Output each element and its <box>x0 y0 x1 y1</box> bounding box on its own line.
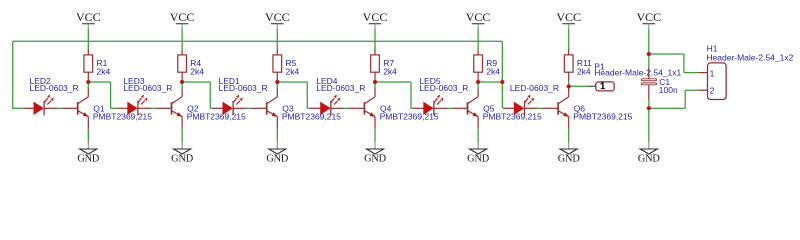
LED LED6 (LED-0603_R) <box>503 95 538 116</box>
junction node R4 / Q2 collector <box>180 80 184 84</box>
svg-text:LED-0603_R: LED-0603_R <box>30 83 79 93</box>
header P1 Header-Male-2.54_1x1 <box>588 82 615 91</box>
wire node to C1 <box>648 54 650 67</box>
junction VCC node / H1 pin1 branch <box>647 52 651 56</box>
svg-text:Header-Male-2.54_1x2: Header-Male-2.54_1x2 <box>706 52 793 62</box>
ground symbol (stage 1) <box>77 142 100 164</box>
svg-text:GND: GND <box>558 153 581 164</box>
power flag VCC (stage 1) <box>76 10 101 29</box>
wire into LED anode <box>411 107 413 109</box>
wire VCC to R7 <box>374 29 376 50</box>
wire to H1 pin 1 <box>684 72 699 74</box>
wire LED cathode to Q5 base <box>447 107 452 109</box>
svg-text:PMBT2369,215: PMBT2369,215 <box>282 112 341 122</box>
svg-text:LED-0603_R: LED-0603_R <box>419 83 468 93</box>
wire LED cathode to Q3 base <box>246 107 251 109</box>
svg-text:PMBT2369,215: PMBT2369,215 <box>483 112 542 122</box>
svg-text:LED-0603_R: LED-0603_R <box>219 83 268 93</box>
ground symbol (C1 / H1 column) <box>638 142 661 164</box>
junction node R9 / Q5 collector <box>476 80 480 84</box>
wire to LED2 anode <box>13 107 23 109</box>
svg-text:PMBT2369,215: PMBT2369,215 <box>93 112 152 122</box>
wire VCC to R9 <box>477 29 479 50</box>
svg-text:VCC: VCC <box>363 10 388 24</box>
svg-text:2k4: 2k4 <box>286 66 300 76</box>
transistor Q4 PMBT2369,215 (NPN) <box>349 88 375 128</box>
svg-text:2: 2 <box>710 85 715 95</box>
svg-text:2k4: 2k4 <box>577 66 591 76</box>
wire into LED anode <box>111 107 117 109</box>
ground symbol (stage 4) <box>364 142 387 164</box>
svg-text:VCC: VCC <box>170 10 195 24</box>
resistor R9 2k4 <box>474 49 483 81</box>
svg-text:GND: GND <box>266 153 289 164</box>
svg-text:2k4: 2k4 <box>383 66 397 76</box>
wire node to Q2 collector <box>181 82 183 89</box>
wire Q2 collector to next LED (vert) <box>209 82 211 108</box>
power flag VCC (stage 2) <box>170 10 195 29</box>
wire C1 to GND <box>648 100 650 142</box>
svg-text:PMBT2369,215: PMBT2369,215 <box>187 112 246 122</box>
wire to H1 pin 2 (vert) <box>684 90 686 108</box>
junction C1 / H1 pin2 branch <box>647 106 651 110</box>
LED LED4 (LED-0603_R) <box>309 95 344 116</box>
svg-text:LED-0603_R: LED-0603_R <box>316 83 365 93</box>
LED LED2 (LED-0603_R) <box>23 95 58 116</box>
transistor Q6 PMBT2369,215 (NPN) <box>543 88 569 128</box>
resistor R11 2k4 <box>564 49 573 81</box>
LED LED1 (LED-0603_R) <box>212 95 247 116</box>
wire VCC to R5 <box>276 29 278 50</box>
wire VCC to R4 <box>181 29 183 50</box>
transistor Q3 PMBT2369,215 (NPN) <box>251 88 277 128</box>
wire Q5 collector to rail junction <box>478 81 502 83</box>
svg-text:2k4: 2k4 <box>97 66 111 76</box>
wire Q1 collector to next LED (vert) <box>110 82 112 108</box>
wire node to Q1 collector <box>87 82 89 89</box>
resistor R1 2k4 <box>84 49 93 81</box>
svg-text:100n: 100n <box>659 85 678 95</box>
header H1 Header-Male-2.54_1x2 <box>699 63 727 100</box>
junction rail / Q5 collector node <box>500 80 504 84</box>
ground symbol (stage 3) <box>266 142 289 164</box>
wire Q4 emitter to GND <box>374 129 376 143</box>
svg-text:2k4: 2k4 <box>486 66 500 76</box>
svg-text:GND: GND <box>77 153 100 164</box>
power flag VCC (stage 4) <box>363 10 388 29</box>
resistor R5 2k4 <box>273 49 282 81</box>
ground symbol (stage 6) <box>558 142 581 164</box>
svg-text:VCC: VCC <box>636 10 661 24</box>
transistor Q1 PMBT2369,215 (NPN) <box>62 88 88 128</box>
resistor R7 2k4 <box>371 49 380 81</box>
wire VCC to node <box>648 29 650 54</box>
wire Q4 collector to next LED (vert) <box>410 82 412 108</box>
wire LED cathode to Q1 base <box>57 107 62 109</box>
junction node R11 / Q6 / P1 <box>567 84 571 88</box>
svg-text:PMBT2369,215: PMBT2369,215 <box>380 112 439 122</box>
wire Q3 collector to next LED (horiz) <box>277 81 307 83</box>
wire node to H1 pin 1 (horiz) <box>649 53 684 55</box>
power flag VCC (stage 3) <box>265 10 290 29</box>
ground symbol (stage 5) <box>467 142 490 164</box>
capacitor C1 100n <box>641 67 656 101</box>
svg-text:1: 1 <box>710 69 715 79</box>
power flag VCC (stage 5) <box>466 10 491 29</box>
svg-text:VCC: VCC <box>466 10 491 24</box>
wire VCC to R11 <box>568 29 570 50</box>
wire Q6 emitter to GND <box>568 129 570 143</box>
resistor R4 2k4 <box>178 49 187 81</box>
wire node to Q4 collector <box>374 82 376 89</box>
svg-text:GND: GND <box>467 153 490 164</box>
svg-text:PMBT2369,215: PMBT2369,215 <box>573 112 632 122</box>
svg-text:VCC: VCC <box>76 10 101 24</box>
svg-text:GND: GND <box>364 153 387 164</box>
svg-text:2k4: 2k4 <box>190 66 204 76</box>
ground symbol (stage 2) <box>171 142 194 164</box>
LED LED3 (LED-0603_R) <box>117 95 152 116</box>
wire to H1 pin 1 (vert) <box>683 54 685 73</box>
svg-text:VCC: VCC <box>556 10 581 24</box>
wire Q1 emitter to GND <box>87 129 89 143</box>
wire LED cathode to Q4 base <box>344 107 349 109</box>
LED LED5 (LED-0603_R) <box>413 95 448 116</box>
junction node R7 / Q4 collector <box>373 80 377 84</box>
wire to H1 pin 2 <box>685 89 698 91</box>
wire LED cathode to Q6 base <box>538 107 543 109</box>
power flag VCC (decoupling / H1 column) <box>636 10 661 29</box>
transistor Q5 PMBT2369,215 (NPN) <box>452 88 478 128</box>
wire Q3 emitter to GND <box>276 129 278 143</box>
wire LED cathode to Q2 base <box>151 107 156 109</box>
wire R11 to Q6 collector <box>568 80 570 90</box>
wire feedback rail (top) <box>13 40 503 42</box>
transistor Q2 PMBT2369,215 (NPN) <box>156 88 182 128</box>
svg-text:VCC: VCC <box>265 10 290 24</box>
wire node to Q5 collector <box>477 82 479 89</box>
svg-text:GND: GND <box>638 153 661 164</box>
wire node to Q3 collector <box>276 82 278 89</box>
junction node R5 / Q3 collector <box>275 80 279 84</box>
wire Q3 collector to next LED (vert) <box>306 82 308 108</box>
wire Q5 emitter to GND <box>477 129 479 143</box>
wire Q1 collector to next LED (horiz) <box>88 81 110 83</box>
wire into LED anode <box>210 107 212 109</box>
junction node R1 / Q1 collector <box>86 80 90 84</box>
power flag VCC (stage 6) <box>556 10 581 29</box>
wire Q2 emitter to GND <box>181 129 183 143</box>
wire Q6 collector node to P1 <box>569 85 588 87</box>
wire Q4 collector to next LED (horiz) <box>375 81 411 83</box>
svg-text:GND: GND <box>171 153 194 164</box>
wire feedback rail right drop <box>501 41 503 108</box>
svg-text:LED-0603_R: LED-0603_R <box>123 83 172 93</box>
wire feedback rail left drop <box>12 41 14 108</box>
wire Q2 collector to next LED (horiz) <box>182 81 210 83</box>
svg-text:LED-0603_R: LED-0603_R <box>510 83 559 93</box>
wire node to H1 pin 2 (horiz) <box>649 107 685 109</box>
wire VCC to R1 <box>87 29 89 50</box>
wire into LED anode <box>307 107 309 109</box>
